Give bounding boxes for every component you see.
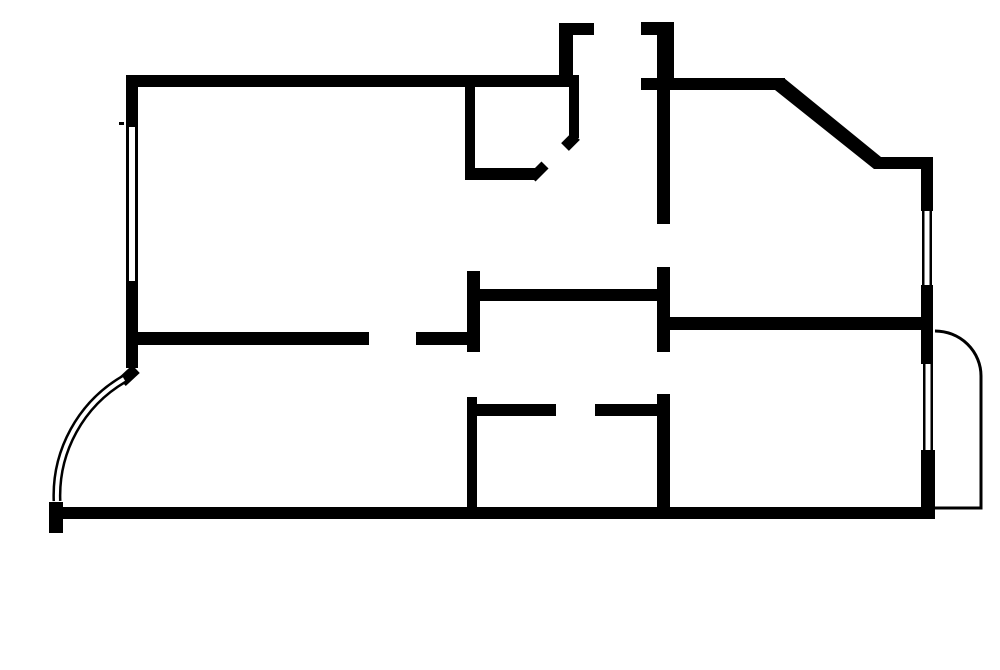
wall interior vertical x657 segment A xyxy=(657,89,670,224)
wall bottom exterior xyxy=(62,507,935,519)
wall right exterior upper xyxy=(921,158,933,211)
window right upper (double line) xyxy=(922,211,925,285)
tick at window top xyxy=(119,122,124,125)
wall left exterior upper xyxy=(126,75,138,127)
balcony door left jamb vertical xyxy=(559,23,573,76)
wall interior vertical x657 segment C xyxy=(657,394,670,514)
door leaf entrance xyxy=(122,369,136,382)
wall stub bottom-left block xyxy=(49,502,63,533)
door tick top-middle room xyxy=(532,165,545,178)
balcony door right jamb top stub xyxy=(641,22,674,35)
wall top-right shelf xyxy=(874,157,933,169)
wall interior horizontal left segment B xyxy=(416,332,467,345)
wall interior horizontal right xyxy=(662,317,923,330)
wall right exterior middle xyxy=(921,285,933,364)
wall stub below top wall xyxy=(569,87,579,138)
wall lower-middle horizontal left xyxy=(467,404,556,416)
wall mid-left vertical xyxy=(467,271,480,352)
wall right exterior lower xyxy=(921,450,935,519)
window right lower (double line) xyxy=(923,364,926,450)
window left (double line) xyxy=(126,127,129,281)
balcony outline right xyxy=(935,331,981,508)
balcony door right jamb vertical xyxy=(657,22,674,79)
balcony door left jamb top stub xyxy=(559,23,594,35)
wall left exterior lower xyxy=(126,281,138,368)
wall lower mid-left vertical xyxy=(467,397,477,514)
wall top-middle room left vertical xyxy=(465,87,475,180)
wall top-middle room bottom xyxy=(465,168,537,180)
wall middle room top xyxy=(476,289,667,301)
door tick upper middle xyxy=(565,136,576,147)
wall diagonal top-right xyxy=(775,78,881,169)
door arc entrance (double line) xyxy=(57,379,124,501)
wall top-left exterior xyxy=(126,75,579,87)
wall interior vertical x657 segment B xyxy=(657,267,670,352)
wall top-right exterior xyxy=(641,78,785,90)
wall interior horizontal left segment A xyxy=(135,332,369,345)
wall lower-middle horizontal right xyxy=(595,404,657,416)
